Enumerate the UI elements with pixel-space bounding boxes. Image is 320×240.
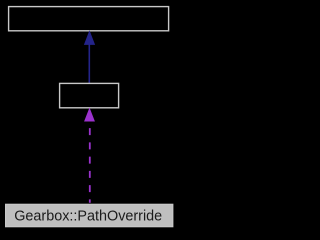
node: middle box (empty) bbox=[60, 83, 119, 107]
node: top base-class box (empty) bbox=[9, 7, 169, 31]
inheritance arrow (solid, midnightblue) bbox=[85, 32, 95, 83]
node: Gearbox::PathOverride (current class) bbox=[6, 204, 173, 226]
svg-text:Gearbox::PathOverride: Gearbox::PathOverride bbox=[14, 209, 162, 225]
usage arrow (dashed, darkorchid) bbox=[85, 109, 94, 203]
